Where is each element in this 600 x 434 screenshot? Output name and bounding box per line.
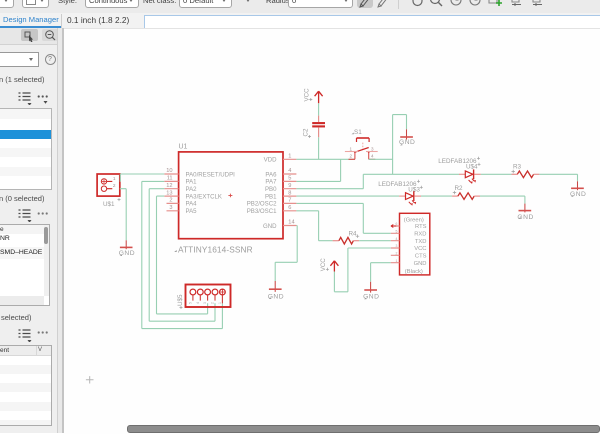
svg-text:3: 3 — [371, 147, 374, 152]
section 2 — [0, 194, 44, 203]
horizontal scrollbar — [127, 425, 600, 433]
svg-text:PB3/OSC1: PB3/OSC1 — [247, 208, 277, 215]
svg-text:GND: GND — [268, 293, 284, 300]
svg-text:7: 7 — [288, 198, 291, 204]
wire LED U$4 to R3 — [481, 173, 512, 175]
svg-text:GND: GND — [517, 214, 533, 221]
wire U1 pin8 PB1 to LED U$3 — [296, 195, 399, 197]
svg-text:R4: R4 — [349, 231, 358, 238]
svg-text:13: 13 — [166, 190, 172, 196]
svg-text:GND: GND — [119, 250, 135, 257]
wire R3 to GND — [539, 174, 577, 181]
wire switch right to GND column — [369, 158, 393, 160]
svg-text:VCC: VCC — [414, 246, 426, 252]
svg-text:1: 1 — [113, 176, 116, 182]
ground flag (serial) — [363, 282, 379, 301]
svg-text:6: 6 — [288, 205, 291, 211]
svg-text:PA4: PA4 — [186, 201, 198, 208]
ground flag (top right) — [399, 129, 415, 146]
VCC power flag (top) — [304, 88, 323, 103]
svg-text:U$5: U$5 — [177, 294, 184, 306]
svg-text:3: 3 — [169, 205, 172, 211]
svg-text:PA1: PA1 — [186, 179, 198, 186]
svg-text:PB1: PB1 — [265, 193, 277, 200]
svg-text:PA6: PA6 — [265, 171, 277, 178]
wire LED U$3 to R2 — [421, 195, 452, 197]
wire U1 pin7 PB2 to RXD — [296, 203, 390, 233]
U1 pin numbers — [166, 154, 294, 226]
wire U1 pin9 PB0 to LED rail — [296, 174, 363, 188]
IC U1 ATTINY1614-SSNR — [174, 143, 283, 254]
wire U1 pin6 PB3 to R4 — [296, 211, 332, 241]
U1 right pin stubs — [283, 159, 296, 225]
wire LED U$4 rail — [363, 173, 459, 175]
svg-text:(Green): (Green) — [404, 218, 424, 224]
svg-text:GND: GND — [414, 261, 427, 267]
wire C2 to VDD rail — [318, 137, 320, 159]
svg-text:S1: S1 — [354, 129, 362, 136]
svg-text:PB2/OSC2: PB2/OSC2 — [247, 201, 277, 208]
pencil button selected — [357, 0, 373, 8]
svg-text:RXD: RXD — [414, 232, 426, 238]
ground flag (R3) — [570, 181, 586, 198]
VCC power flag (serial) — [320, 258, 338, 272]
svg-text:PA3/EXTCLK: PA3/EXTCLK — [186, 193, 222, 200]
wire U1 pin5 PA7 — [296, 180, 340, 182]
grid origin crosshair — [86, 376, 94, 383]
wires U1 pins 11,12,13 to U$5 (long left loop) — [142, 181, 223, 328]
svg-text:3: 3 — [396, 244, 398, 248]
svg-text:R3: R3 — [513, 164, 522, 171]
LED U$3 — [378, 180, 423, 206]
panel scrollbar — [57, 28, 63, 433]
section 3 — [0, 313, 31, 322]
wire U$1 pin2 down to GND — [120, 189, 126, 241]
svg-text:14: 14 — [288, 220, 294, 226]
svg-text:12: 12 — [166, 183, 172, 189]
svg-text:PA7: PA7 — [265, 179, 277, 186]
wire VDD rail down to PA7 — [340, 159, 342, 181]
svg-text:1: 1 — [288, 154, 291, 160]
svg-text:5: 5 — [288, 176, 291, 182]
svg-text:U1: U1 — [179, 143, 188, 150]
resistor R4 — [333, 231, 360, 244]
connector U$1 (UPDI header) — [97, 174, 120, 208]
wire VCC to C2 — [318, 103, 320, 115]
svg-text:RTS: RTS — [415, 224, 427, 230]
svg-text:GND: GND — [263, 223, 277, 230]
svg-text:VDD: VDD — [264, 157, 277, 164]
svg-text:3: 3 — [203, 302, 207, 304]
pushbutton S1 — [345, 129, 378, 159]
svg-text:U$1: U$1 — [103, 201, 115, 208]
capacitor C2 — [303, 116, 326, 138]
connector U$5 (5-pin header) — [177, 285, 231, 310]
wire R2 to GND — [480, 196, 525, 204]
svg-text:GND: GND — [363, 294, 379, 301]
svg-text:2: 2 — [113, 183, 116, 189]
wire VCC flag to serial VCC pin — [334, 248, 390, 292]
listbox 2 — [0, 224, 50, 306]
svg-text:4: 4 — [196, 302, 200, 304]
svg-text:1: 1 — [350, 147, 353, 152]
svg-text:5: 5 — [188, 302, 192, 304]
U1 left pin stubs — [164, 174, 178, 211]
connector U$2 (serial header) — [391, 213, 430, 275]
wire U1 pin14 GND to ground — [275, 226, 297, 282]
svg-text:11: 11 — [167, 176, 173, 182]
svg-text:2: 2 — [169, 198, 172, 204]
svg-text:(Black): (Black) — [405, 269, 423, 275]
svg-text:2: 2 — [211, 302, 215, 304]
wire U$1 pin1 to U1 pin10 (PA0/UPDI) — [120, 174, 165, 181]
combo + help — [0, 52, 39, 67]
ground flag (U$1) — [119, 240, 135, 257]
wire VDD rail (U1 pin1 to switch) — [296, 158, 355, 160]
svg-text:CTS: CTS — [415, 254, 427, 260]
svg-text:10: 10 — [166, 168, 172, 174]
svg-text:PA2: PA2 — [186, 186, 198, 193]
svg-text:9: 9 — [288, 183, 291, 189]
LED U$4 — [438, 157, 481, 184]
svg-text:1: 1 — [396, 259, 398, 263]
svg-text:TXD: TXD — [415, 239, 427, 245]
listbox 1 — [0, 108, 52, 190]
svg-text:ATTINY1614-SSNR: ATTINY1614-SSNR — [178, 244, 253, 254]
svg-text:GND: GND — [570, 191, 586, 198]
resistor R2 — [452, 185, 480, 200]
wire GND column (down to LED rail) — [393, 115, 407, 175]
panel toolbar — [0, 28, 62, 45]
svg-text:PA5: PA5 — [186, 208, 198, 215]
svg-text:4: 4 — [288, 168, 291, 174]
listbox 3 — [0, 345, 52, 426]
wire R4 to TXD — [359, 240, 391, 242]
svg-text:1: 1 — [218, 302, 222, 304]
svg-text:8: 8 — [288, 190, 291, 196]
section 1 — [0, 75, 44, 84]
svg-text:5: 5 — [396, 230, 398, 234]
ground flag (U1 pin14) — [268, 281, 284, 300]
svg-text:2: 2 — [350, 154, 353, 159]
svg-text:PA0/RESET/UDPI: PA0/RESET/UDPI — [186, 171, 236, 178]
svg-text:PB0: PB0 — [265, 186, 277, 193]
resistor R3 — [512, 164, 540, 178]
svg-text:4: 4 — [396, 237, 398, 241]
svg-text:4: 4 — [371, 154, 374, 159]
wire serial GND pin to ground — [371, 263, 391, 282]
ground flag (R2) — [517, 204, 533, 221]
svg-text:U$4: U$4 — [466, 164, 478, 171]
svg-text:C2: C2 — [303, 128, 310, 136]
svg-text:R2: R2 — [455, 185, 464, 192]
svg-text:2: 2 — [396, 252, 398, 256]
